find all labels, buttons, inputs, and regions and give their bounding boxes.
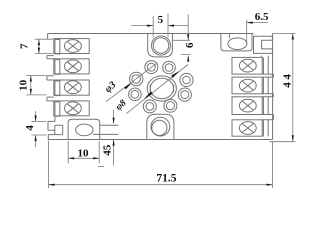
body bottom edge bbox=[48, 139, 273, 141]
svg-text:10: 10 bbox=[18, 79, 30, 91]
bottom left notch bbox=[48, 116, 63, 140]
right terminal box 2 bbox=[232, 77, 268, 94]
svg-text:4: 4 bbox=[24, 125, 36, 131]
body left edge steps bbox=[47, 33, 54, 101]
right terminal box 4 bbox=[232, 120, 268, 137]
svg-text:7: 7 bbox=[19, 43, 31, 49]
svg-text:6.5: 6.5 bbox=[255, 11, 269, 23]
left terminal box 2 bbox=[54, 59, 89, 75]
top right tab bbox=[221, 33, 252, 51]
dim 4 bbox=[32, 111, 47, 147]
bottom left tab bbox=[68, 119, 100, 139]
slot ext lines bbox=[93, 125, 118, 134]
dim 7 bbox=[35, 39, 53, 53]
dim 5 bbox=[131, 14, 188, 38]
svg-text:45: 45 bbox=[101, 144, 113, 156]
svg-text:10: 10 bbox=[78, 147, 90, 159]
body right edge bbox=[272, 34, 274, 140]
8 contact rings bbox=[129, 61, 194, 113]
top center tab bbox=[148, 33, 173, 57]
dim 6.5 bbox=[247, 20, 269, 43]
body top edge bbox=[48, 33, 254, 35]
center inner circle bbox=[150, 78, 173, 98]
right side lips bbox=[262, 56, 274, 120]
svg-text:44: 44 bbox=[282, 71, 294, 87]
left terminal box 3 bbox=[54, 80, 89, 96]
left terminal box 1 bbox=[54, 39, 89, 54]
svg-text:71.5: 71.5 bbox=[156, 172, 176, 184]
dim 6 bbox=[173, 14, 191, 62]
right terminal box 3 bbox=[232, 97, 268, 115]
svg-text:5: 5 bbox=[158, 14, 164, 26]
bottom center tab bbox=[147, 114, 174, 139]
phi8 diameter line bbox=[127, 65, 189, 114]
dim 45 bbox=[98, 110, 114, 167]
dim 71.5 bbox=[49, 141, 273, 189]
left terminal box 4 bbox=[54, 101, 89, 116]
dim 10 bottom bbox=[68, 141, 99, 164]
center outer ellipse bbox=[147, 76, 176, 101]
dim 10 left bbox=[26, 76, 46, 95]
dim 44 bbox=[270, 34, 296, 142]
right C bracket bbox=[254, 36, 273, 53]
svg-text:6: 6 bbox=[184, 42, 196, 48]
right terminal box 1 bbox=[232, 57, 268, 74]
phi3 leader bbox=[106, 63, 158, 102]
